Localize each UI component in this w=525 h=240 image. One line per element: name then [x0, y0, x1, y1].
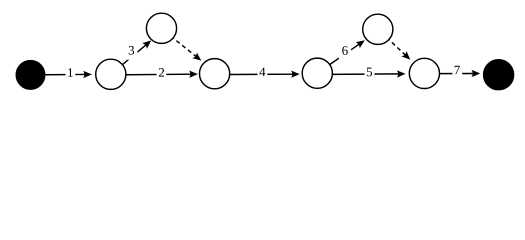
- arrowhead of edge D-F 5: [397, 70, 406, 77]
- arrowhead of edge A-C 2: [189, 70, 198, 77]
- node E: [363, 14, 393, 44]
- label gap box 2: [157, 66, 167, 80]
- label gap box 6: [339, 43, 351, 60]
- wire edge A-C 2: [126, 73, 192, 76]
- filled node T: [484, 60, 514, 90]
- node A: [96, 59, 126, 89]
- label gap box 5: [365, 66, 375, 80]
- arrowhead of edge D-E 6: [355, 37, 366, 48]
- arrowhead of edge A-B 3: [142, 38, 153, 49]
- label gap box 7: [452, 64, 462, 78]
- label gap box 1: [66, 67, 76, 81]
- arrowhead of edge C-D 4: [291, 70, 300, 77]
- label 5: [367, 68, 372, 77]
- wire edge A-B 3: [119, 44, 147, 68]
- arrowhead of edge E-F dummy: [401, 51, 412, 62]
- arrowhead of edge F-T 7: [471, 70, 480, 77]
- wire edge S-A 1: [45, 73, 86, 75]
- wire edge D-E 6: [326, 43, 361, 67]
- wire edge F-T 7: [440, 72, 475, 74]
- filled node S: [16, 61, 45, 90]
- node F: [409, 58, 439, 88]
- wire edge B-C dummy: [171, 36, 197, 57]
- wire edge E-F dummy: [387, 37, 407, 55]
- label 1: [68, 68, 73, 77]
- arrowhead of edge B-C dummy: [192, 52, 203, 63]
- wire edge D-F 5: [333, 73, 400, 75]
- label gap box 4: [258, 66, 268, 80]
- label 2: [159, 68, 164, 77]
- label 7: [455, 66, 460, 75]
- node C: [200, 59, 230, 89]
- label 4: [259, 68, 265, 77]
- label 6: [342, 46, 348, 55]
- node B: [146, 13, 176, 43]
- arrowhead of edge S-A 1: [83, 71, 92, 78]
- label 3: [129, 46, 134, 55]
- node D: [302, 58, 332, 88]
- activity network diagram: [0, 0, 525, 105]
- label gap box 3: [125, 43, 137, 60]
- wire edge C-D 4: [230, 73, 294, 75]
